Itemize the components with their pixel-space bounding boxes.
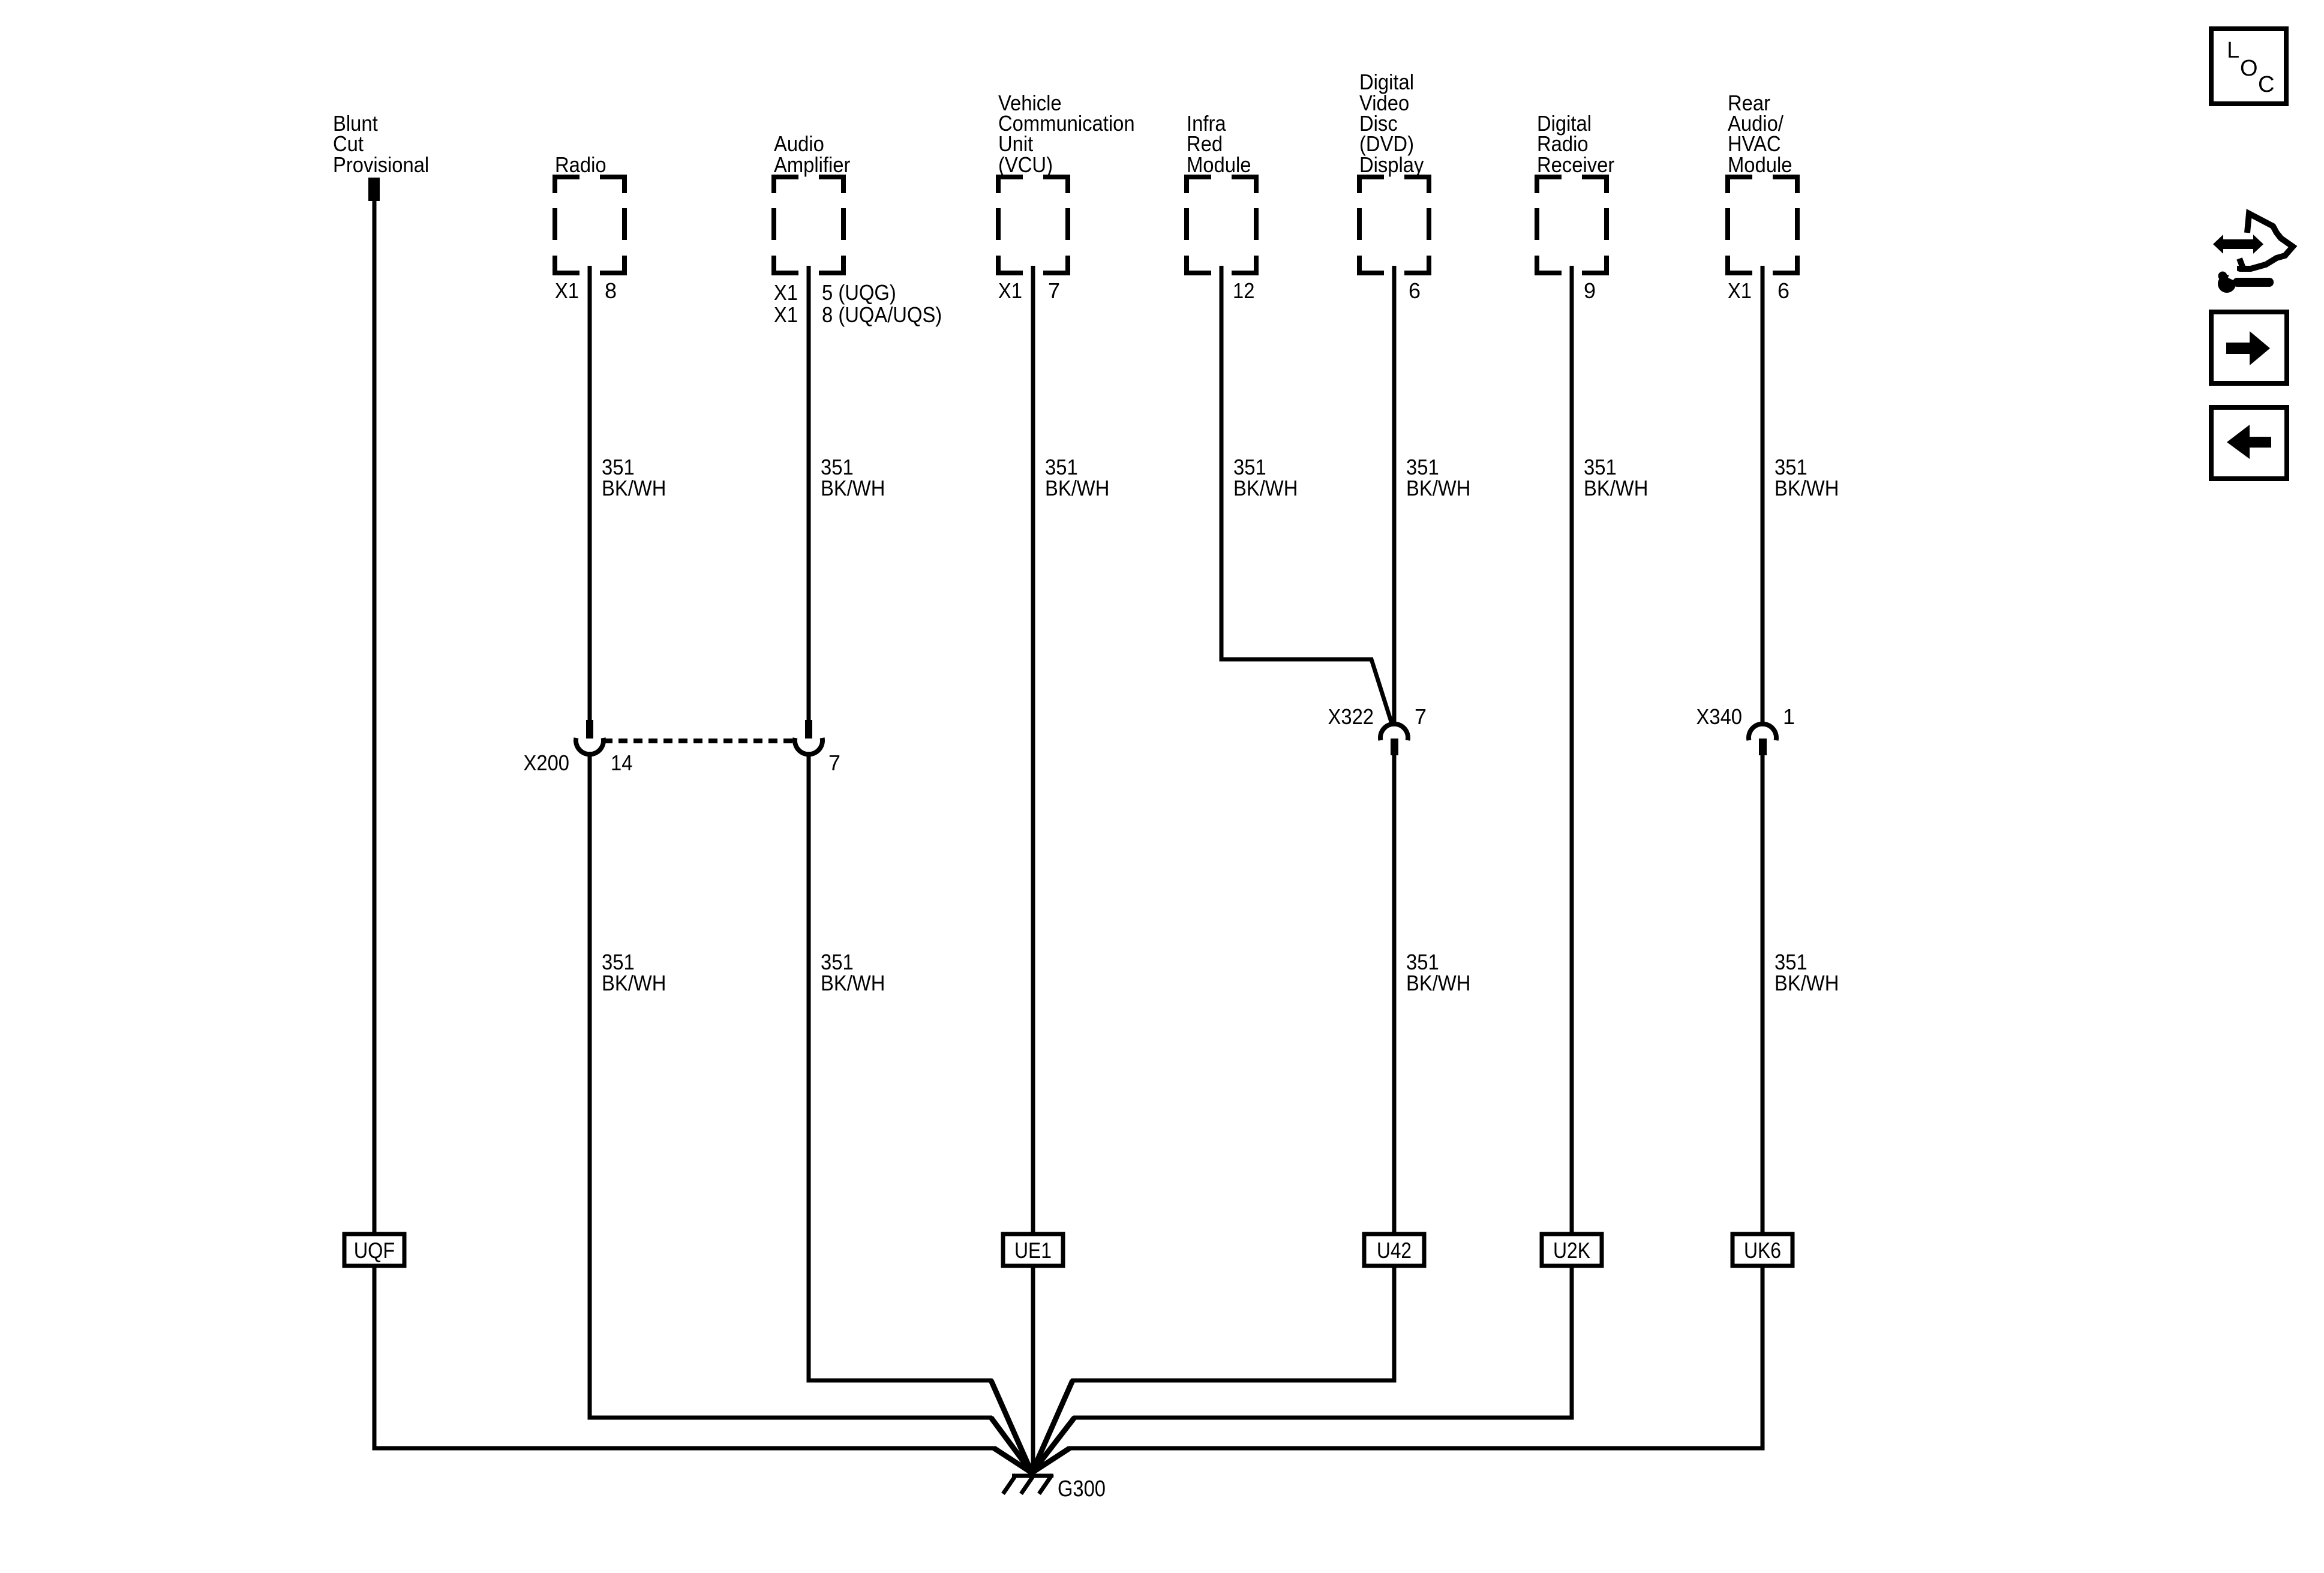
fuse block label UK6 [1733, 1234, 1792, 1266]
connector X200 pin 14 female cup [576, 738, 603, 754]
legend harness routing / wrench icon [2213, 214, 2293, 293]
svg-text:7: 7 [828, 751, 840, 775]
pin label Audio Amplifier X1 8 (UQA/UQS) [774, 302, 942, 327]
wire Audio Amplifier lower segment to G300 [809, 752, 1032, 1473]
svg-text:BK/WH: BK/WH [1584, 476, 1648, 500]
wrench [2218, 275, 2236, 293]
wire blunt cut to G300 via UQF [374, 180, 1032, 1473]
svg-text:BK/WH: BK/WH [602, 971, 666, 995]
wire VCU lower segment to G300 [1031, 1266, 1035, 1473]
component label Blunt Cut Provisional [333, 111, 429, 177]
wire label 351 BK/WH DVD [1406, 455, 1470, 500]
fuse block label U2K [1542, 1234, 1602, 1266]
connector box Radio [553, 175, 627, 275]
component label Infra Red Module [1187, 111, 1251, 177]
svg-text:L: L [2227, 38, 2239, 63]
component label Audio Amplifier [774, 131, 850, 177]
svg-text:C: C [2258, 72, 2274, 97]
connector X322 label [1328, 704, 1427, 729]
component label Digital Radio Receiver [1537, 111, 1614, 177]
connector box Vehicle Communication Unit [996, 175, 1070, 275]
pin label VCU X1 7 [998, 278, 1060, 303]
connector X200 boundary dashed line [603, 739, 795, 743]
svg-text:UQF: UQF [354, 1238, 395, 1263]
connector X200 pin 7 female cup [795, 738, 822, 754]
svg-text:BK/WH: BK/WH [1774, 971, 1839, 995]
svg-text:BK/WH: BK/WH [1406, 971, 1470, 995]
wire VCU upper segment circuit 351 BK/WH [1031, 266, 1035, 1234]
ground G300 symbol [1003, 1464, 1053, 1494]
svg-text:UK6: UK6 [1744, 1238, 1781, 1263]
fuse block label UQF [344, 1234, 404, 1266]
svg-text:7: 7 [1415, 704, 1427, 729]
component label Rear Audio/HVAC Module [1728, 91, 1792, 177]
wire label 351 BK/WH infra red [1233, 455, 1298, 500]
svg-text:G300: G300 [1058, 1476, 1106, 1502]
wire Audio Amplifier upper segment circuit 351 BK/WH [807, 266, 811, 721]
svg-text:Module: Module [1728, 152, 1792, 177]
wire label 351 BK/WH VCU [1045, 455, 1109, 500]
wire Radio upper segment circuit 351 BK/WH [588, 266, 592, 721]
pin label Radio X1 8 [555, 278, 617, 303]
svg-text:Display: Display [1359, 152, 1424, 177]
svg-text:X1: X1 [774, 302, 798, 327]
connector box Audio Amplifier [771, 175, 846, 275]
svg-text:8: 8 [605, 278, 617, 303]
wire junction fan at G300 [991, 1380, 1074, 1473]
wire label 351 BK/WH audio amplifier lower [821, 950, 885, 995]
svg-text:X1: X1 [998, 278, 1022, 303]
svg-text:14: 14 [611, 751, 632, 775]
svg-text:BK/WH: BK/WH [602, 476, 666, 500]
legend back arrow box [2211, 407, 2287, 479]
wire U2K to G300 [1032, 1266, 1572, 1473]
svg-text:12: 12 [1233, 278, 1254, 303]
svg-text:Module: Module [1187, 152, 1251, 177]
svg-text:8 (UQA/UQS): 8 (UQA/UQS) [822, 302, 942, 327]
svg-text:X1: X1 [774, 280, 798, 305]
wire DVD Display upper segment circuit 351 BK/WH [1392, 266, 1397, 724]
svg-text:Receiver: Receiver [1537, 152, 1614, 177]
double headed arrow [2213, 235, 2263, 254]
svg-text:6: 6 [1777, 278, 1789, 303]
svg-text:X200: X200 [524, 751, 570, 775]
connector X200 pin 7 male pin [805, 720, 812, 739]
blunt cut terminal marker [368, 178, 380, 201]
svg-text:X340: X340 [1697, 704, 1743, 729]
connector X322 pin 7 male pin [1391, 739, 1398, 755]
svg-text:BK/WH: BK/WH [1774, 476, 1839, 500]
wire label 351 BK/WH radio lower [602, 950, 666, 995]
connector X340 female cup [1749, 724, 1776, 740]
connector X340 pin 1 male pin [1759, 739, 1767, 755]
svg-text:X322: X322 [1328, 704, 1374, 729]
svg-text:6: 6 [1409, 278, 1421, 303]
svg-text:5 (UQG): 5 (UQG) [822, 280, 896, 305]
svg-text:9: 9 [1584, 278, 1596, 303]
pin label Rear Audio/HVAC Module X1 6 [1728, 278, 1789, 303]
svg-text:Provisional: Provisional [333, 152, 429, 177]
wire Infra Red Module circuit 351 BK/WH to X322 [1221, 266, 1392, 724]
svg-text:X1: X1 [555, 278, 579, 303]
wire DVD lower segment to G300 via U42 [1392, 754, 1397, 1234]
svg-text:BK/WH: BK/WH [1233, 476, 1298, 500]
svg-text:U2K: U2K [1553, 1238, 1590, 1263]
fuse block label U42 [1364, 1234, 1424, 1266]
svg-text:BK/WH: BK/WH [1045, 476, 1109, 500]
wire label 351 BK/WH DVD lower [1406, 950, 1470, 995]
wire label 351 BK/WH radio upper [602, 455, 666, 500]
wire UK6 to G300 [1032, 1266, 1762, 1473]
wire label 351 BK/WH digital radio receiver [1584, 455, 1648, 500]
svg-text:Radio: Radio [555, 152, 606, 177]
svg-text:UE1: UE1 [1014, 1238, 1052, 1263]
svg-text:1: 1 [1783, 704, 1795, 729]
harness outline [2237, 214, 2293, 269]
component label Digital Video Disc (DVD) Display [1359, 70, 1424, 177]
connector box Infra Red Module [1184, 175, 1259, 275]
connector X200 pin 14 male pin [586, 720, 593, 739]
svg-text:BK/WH: BK/WH [821, 971, 885, 995]
wire U42 to G300 [1032, 1266, 1394, 1473]
connector box DVD Display [1357, 175, 1431, 275]
legend forward arrow box [2211, 312, 2287, 383]
svg-text:X1: X1 [1728, 278, 1752, 303]
svg-text:U42: U42 [1377, 1238, 1412, 1263]
connector X322 female cup [1380, 724, 1408, 740]
component label Vehicle Communication Unit (VCU) [998, 91, 1135, 177]
svg-text:Amplifier: Amplifier [774, 152, 850, 177]
svg-text:BK/WH: BK/WH [821, 476, 885, 500]
fuse block label UE1 [1003, 1234, 1063, 1266]
svg-text:O: O [2240, 56, 2258, 81]
wire Rear Audio/HVAC upper segment circuit 351 BK/WH [1761, 266, 1765, 724]
svg-text:7: 7 [1048, 278, 1060, 303]
wire label 351 BK/WH rear audio lower [1774, 950, 1839, 995]
wire Radio lower segment to G300 [590, 752, 1032, 1473]
wire Rear Audio lower segment to G300 via UK6 [1761, 754, 1765, 1234]
svg-text:BK/WH: BK/WH [1406, 476, 1470, 500]
svg-text:(VCU): (VCU) [998, 152, 1053, 177]
legend LOC box [2211, 29, 2286, 104]
wire Digital Radio Receiver circuit 351 BK/WH [1570, 266, 1574, 1234]
connector box Digital Radio Receiver [1535, 175, 1609, 275]
connector X200 label [524, 751, 633, 775]
wire label 351 BK/WH audio amplifier upper [821, 455, 885, 500]
wire label 351 BK/WH rear audio [1774, 455, 1839, 500]
pin label Audio Amplifier X1 5 (UQG) [774, 280, 896, 305]
connector X340 label [1697, 704, 1795, 729]
connector box Rear Audio/HVAC Module [1725, 175, 1800, 275]
